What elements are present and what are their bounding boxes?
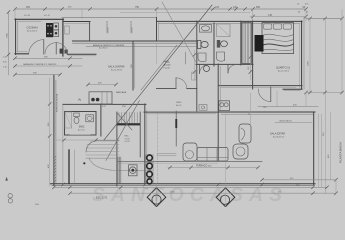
wall central long <box>217 64 219 160</box>
dim below bath <box>56 139 100 141</box>
svg-text:2.10: 2.10 <box>3 67 7 69</box>
dim right vertical extension lines <box>310 10 342 194</box>
porch step dash column 2 <box>130 22 132 34</box>
bathroom walls <box>65 112 97 136</box>
svg-text:BWC: BWC <box>79 126 85 129</box>
stairs right wall <box>139 112 141 157</box>
dim bottom line 2 <box>54 186 327 188</box>
wall kitchen top <box>15 18 64 20</box>
bottom wall junction ticks <box>62 183 264 186</box>
svg-text:MURO DE DIVISA: MURO DE DIVISA <box>56 93 59 112</box>
kitchen counter <box>89 92 112 104</box>
dim living top <box>258 105 318 107</box>
column marker B2 circle <box>220 195 229 204</box>
dim right ticks y93 <box>305 91 344 94</box>
bed pillow 1 <box>264 24 272 29</box>
kitchen counter divisions <box>101 92 103 104</box>
wall porch top <box>62 17 157 19</box>
dim top right second line <box>250 16 306 18</box>
room label sala estar <box>270 133 285 139</box>
svg-text:750: 750 <box>135 6 140 9</box>
wall bath1 left <box>196 21 198 111</box>
wall garage left <box>15 19 17 54</box>
sofa cushions <box>198 148 228 161</box>
bath2 toilet dark <box>217 40 220 48</box>
svg-text:560: 560 <box>256 6 261 9</box>
dim window living <box>275 122 312 124</box>
wall garage right <box>89 22 91 41</box>
dim top main line <box>15 8 306 10</box>
dim top mid line <box>120 11 250 13</box>
svg-text:1085: 1085 <box>6 32 8 38</box>
armchair round <box>233 144 248 159</box>
bath1 sink <box>200 25 212 33</box>
stairs treads <box>119 113 137 124</box>
svg-text:GARAGEM COBERTA P/ 2 CARROS: GARAGEM COBERTA P/ 2 CARROS <box>23 63 57 66</box>
axis dashed living <box>157 113 159 183</box>
room label hall <box>164 60 172 70</box>
svg-text:JANELA ALTA: JANELA ALTA <box>279 120 292 123</box>
svg-text:ESC.: ESC. <box>125 136 130 138</box>
wall hall bottom <box>196 63 253 65</box>
svg-text:A=4.82m2: A=4.82m2 <box>99 46 108 49</box>
svg-text:163: 163 <box>215 6 220 9</box>
bed pillow 3 <box>283 24 291 29</box>
bath1 toilet <box>198 41 201 49</box>
dim top extension lines <box>15 9 306 21</box>
sofa body <box>197 148 228 162</box>
svg-text:P=2.80: P=2.80 <box>164 67 171 69</box>
svg-text:A=2.8: A=2.8 <box>176 104 182 107</box>
svg-text:A=3.20: A=3.20 <box>164 64 172 67</box>
room label circ <box>176 102 182 107</box>
svg-text:A=9.45m2: A=9.45m2 <box>27 29 38 32</box>
svg-text:SALA ESTAR: SALA ESTAR <box>270 133 285 136</box>
level dot <box>83 162 85 164</box>
dim bottom ticks <box>53 178 338 194</box>
wall service lower line <box>86 45 196 47</box>
chaise tall right <box>239 124 251 143</box>
dim top ticks <box>14 8 308 19</box>
main diagonal <box>104 5 212 140</box>
svg-text:A=3.10: A=3.10 <box>78 129 85 132</box>
closet border <box>242 23 252 64</box>
wall entry vertical <box>156 18 158 42</box>
svg-text:BANCADA: BANCADA <box>116 91 127 94</box>
fence line light <box>74 150 76 184</box>
svg-text:145: 145 <box>268 14 273 17</box>
wall right lower <box>313 112 315 185</box>
column marker B2 axis <box>225 114 227 207</box>
plant boxes <box>146 155 153 184</box>
wall half divider living <box>175 111 177 146</box>
porch step dash column 1 <box>106 22 108 34</box>
counter sink 1 <box>54 23 59 30</box>
door threshold dark marks <box>60 49 64 54</box>
door arc kitchen B <box>45 43 56 54</box>
parallel diagonal segment <box>141 45 177 90</box>
svg-text:PLANTA BAIXA: PLANTA BAIXA <box>339 142 343 163</box>
room label bwc <box>78 126 85 132</box>
wall kitchen-garage divider <box>62 19 64 56</box>
dim corridor x250 <box>250 93 252 128</box>
wall left lower <box>53 75 55 185</box>
room label quarto <box>276 67 291 73</box>
dim kitchen <box>88 84 116 86</box>
column marker diamond B2 <box>216 188 235 207</box>
wall terrace edge <box>117 160 262 162</box>
dim ext line left lower <box>49 78 51 186</box>
shelf against wall <box>192 72 197 80</box>
door arc hall 1 <box>200 65 209 74</box>
dim texts top <box>26 4 309 17</box>
svg-text:COZINHA: COZINHA <box>27 27 39 30</box>
dim right-top line <box>306 18 342 20</box>
bath2 shower <box>217 24 231 37</box>
wall left lower inner <box>62 104 64 183</box>
wall entry vertical lower thin <box>156 43 158 64</box>
floor drain circle <box>130 167 137 174</box>
column marker diamond B1 <box>147 188 166 207</box>
column marker B1 axis <box>156 184 158 207</box>
wall corridor bottom <box>144 111 218 113</box>
svg-text:TERRACO: TERRACO <box>196 164 207 167</box>
svg-text:120: 120 <box>233 6 238 9</box>
window bath bottom <box>70 134 90 136</box>
wall garage top2 <box>64 21 91 23</box>
dim closet x250 upper <box>249 54 251 80</box>
column marker B1 circle <box>152 195 161 204</box>
svg-text:(A): (A) <box>78 99 81 102</box>
wall center vertical <box>144 104 146 184</box>
wall corridor-bedroom <box>219 85 302 87</box>
hall basin circle <box>204 66 210 72</box>
patio curved top edge <box>86 140 119 152</box>
wall closet left <box>240 21 242 65</box>
dim right lower verticals <box>319 112 337 193</box>
scale circles <box>8 194 12 198</box>
wall bath divider <box>213 23 215 66</box>
svg-text:P=2.80: P=2.80 <box>24 15 30 17</box>
wall garage bottom <box>15 53 29 55</box>
svg-text:SALA JANTAR: SALA JANTAR <box>108 66 125 69</box>
dim bottom line 1 <box>262 179 336 181</box>
left tiny rows <box>3 57 7 69</box>
sofa chaise left <box>183 143 197 161</box>
wall kitchen top <box>63 103 146 105</box>
patio deck hatch <box>86 141 119 158</box>
svg-text:425: 425 <box>26 6 31 9</box>
door hatch vertical strip <box>118 157 121 183</box>
wall bath right vertical <box>100 104 102 136</box>
floor drain box <box>129 165 137 176</box>
wall hall closet divider <box>185 52 187 64</box>
wall right upper <box>301 21 303 89</box>
wall service thick <box>73 40 198 42</box>
wall segment right of doors <box>67 53 96 55</box>
svg-text:A=12.36m2: A=12.36m2 <box>111 69 123 72</box>
wall circ top <box>157 88 177 90</box>
bath sink <box>86 115 94 122</box>
bath1 bidet <box>198 53 206 62</box>
svg-text:A=18.62m2: A=18.62m2 <box>273 136 285 139</box>
wall dining left <box>132 42 134 90</box>
dim bottom line 3 <box>70 192 336 194</box>
garage shelf rect <box>65 26 69 34</box>
north mark <box>5 177 8 181</box>
svg-text:1050: 1050 <box>307 60 309 66</box>
stove dark block <box>46 23 53 37</box>
counter 2 <box>54 30 59 37</box>
door arc kitchen C <box>56 43 67 54</box>
room label garage <box>27 27 39 33</box>
bath2 sink <box>217 52 225 61</box>
dim column entry <box>193 50 195 80</box>
wall top-right top <box>157 20 303 22</box>
svg-text:A=11.25m2: A=11.25m2 <box>278 70 290 73</box>
svg-text:1.20: 1.20 <box>3 57 7 59</box>
bath shower box <box>65 112 72 128</box>
garden path curve <box>89 158 144 171</box>
stove burners <box>47 25 52 35</box>
door arc kitchen A <box>29 40 44 54</box>
window bedroom bottom <box>284 90 300 92</box>
svg-text:ESC. 1:75: ESC. 1:75 <box>96 197 108 200</box>
dim right horizontal line y93 <box>306 92 342 94</box>
svg-text:0.90: 0.90 <box>3 62 7 64</box>
crossing diagonal down-right <box>162 2 196 62</box>
svg-text:h=1.10: h=1.10 <box>44 15 50 17</box>
room label dining <box>108 66 125 72</box>
dim garage below 3 <box>15 74 60 76</box>
left dim vertical <box>8 12 10 75</box>
dim terrace <box>168 167 258 169</box>
svg-text:CIRC.: CIRC. <box>176 102 182 104</box>
stairs landing bar <box>117 123 140 125</box>
plant circles dark <box>147 155 153 184</box>
wall bedroom left <box>252 21 254 89</box>
bed blanket waves <box>262 34 294 36</box>
svg-text:15x18: 15x18 <box>108 27 110 33</box>
svg-text:15x18: 15x18 <box>125 138 130 140</box>
wall bottom <box>50 183 315 185</box>
door arc hall 2 <box>228 65 237 74</box>
dim garage below 1 <box>15 57 82 59</box>
bed <box>262 23 294 54</box>
wall left lower hatch <box>54 156 56 182</box>
fence bar dark left <box>68 150 70 184</box>
sideboard lines <box>157 152 176 154</box>
closet hatch strip <box>242 23 250 63</box>
wall living top <box>219 111 315 113</box>
corridor marks <box>199 105 207 111</box>
wall stairs right <box>116 112 118 186</box>
dim right-top ticks <box>309 17 344 20</box>
svg-text:QUARTO 01: QUARTO 01 <box>276 67 291 70</box>
svg-text:HALL: HALL <box>164 60 171 64</box>
svg-text:h=250: h=250 <box>125 141 130 143</box>
console lavabo <box>219 101 230 111</box>
svg-text:AREA DE SERVICO COBERTA: AREA DE SERVICO COBERTA <box>93 44 124 47</box>
bed pillow 2 <box>273 24 281 29</box>
wardrobe black <box>255 35 264 52</box>
dim garage below 2 <box>15 65 82 67</box>
stairs cross lines <box>117 113 132 130</box>
dim door vertical <box>276 91 278 107</box>
bath toilet <box>74 113 79 117</box>
wall bedroom bottom <box>283 88 302 90</box>
door arc bedroom <box>258 89 271 102</box>
kitchen sink dots <box>91 98 95 102</box>
sofa ottoman circle <box>186 151 194 159</box>
svg-text:15x18: 15x18 <box>132 27 134 33</box>
door arc corridor wide <box>176 78 187 89</box>
